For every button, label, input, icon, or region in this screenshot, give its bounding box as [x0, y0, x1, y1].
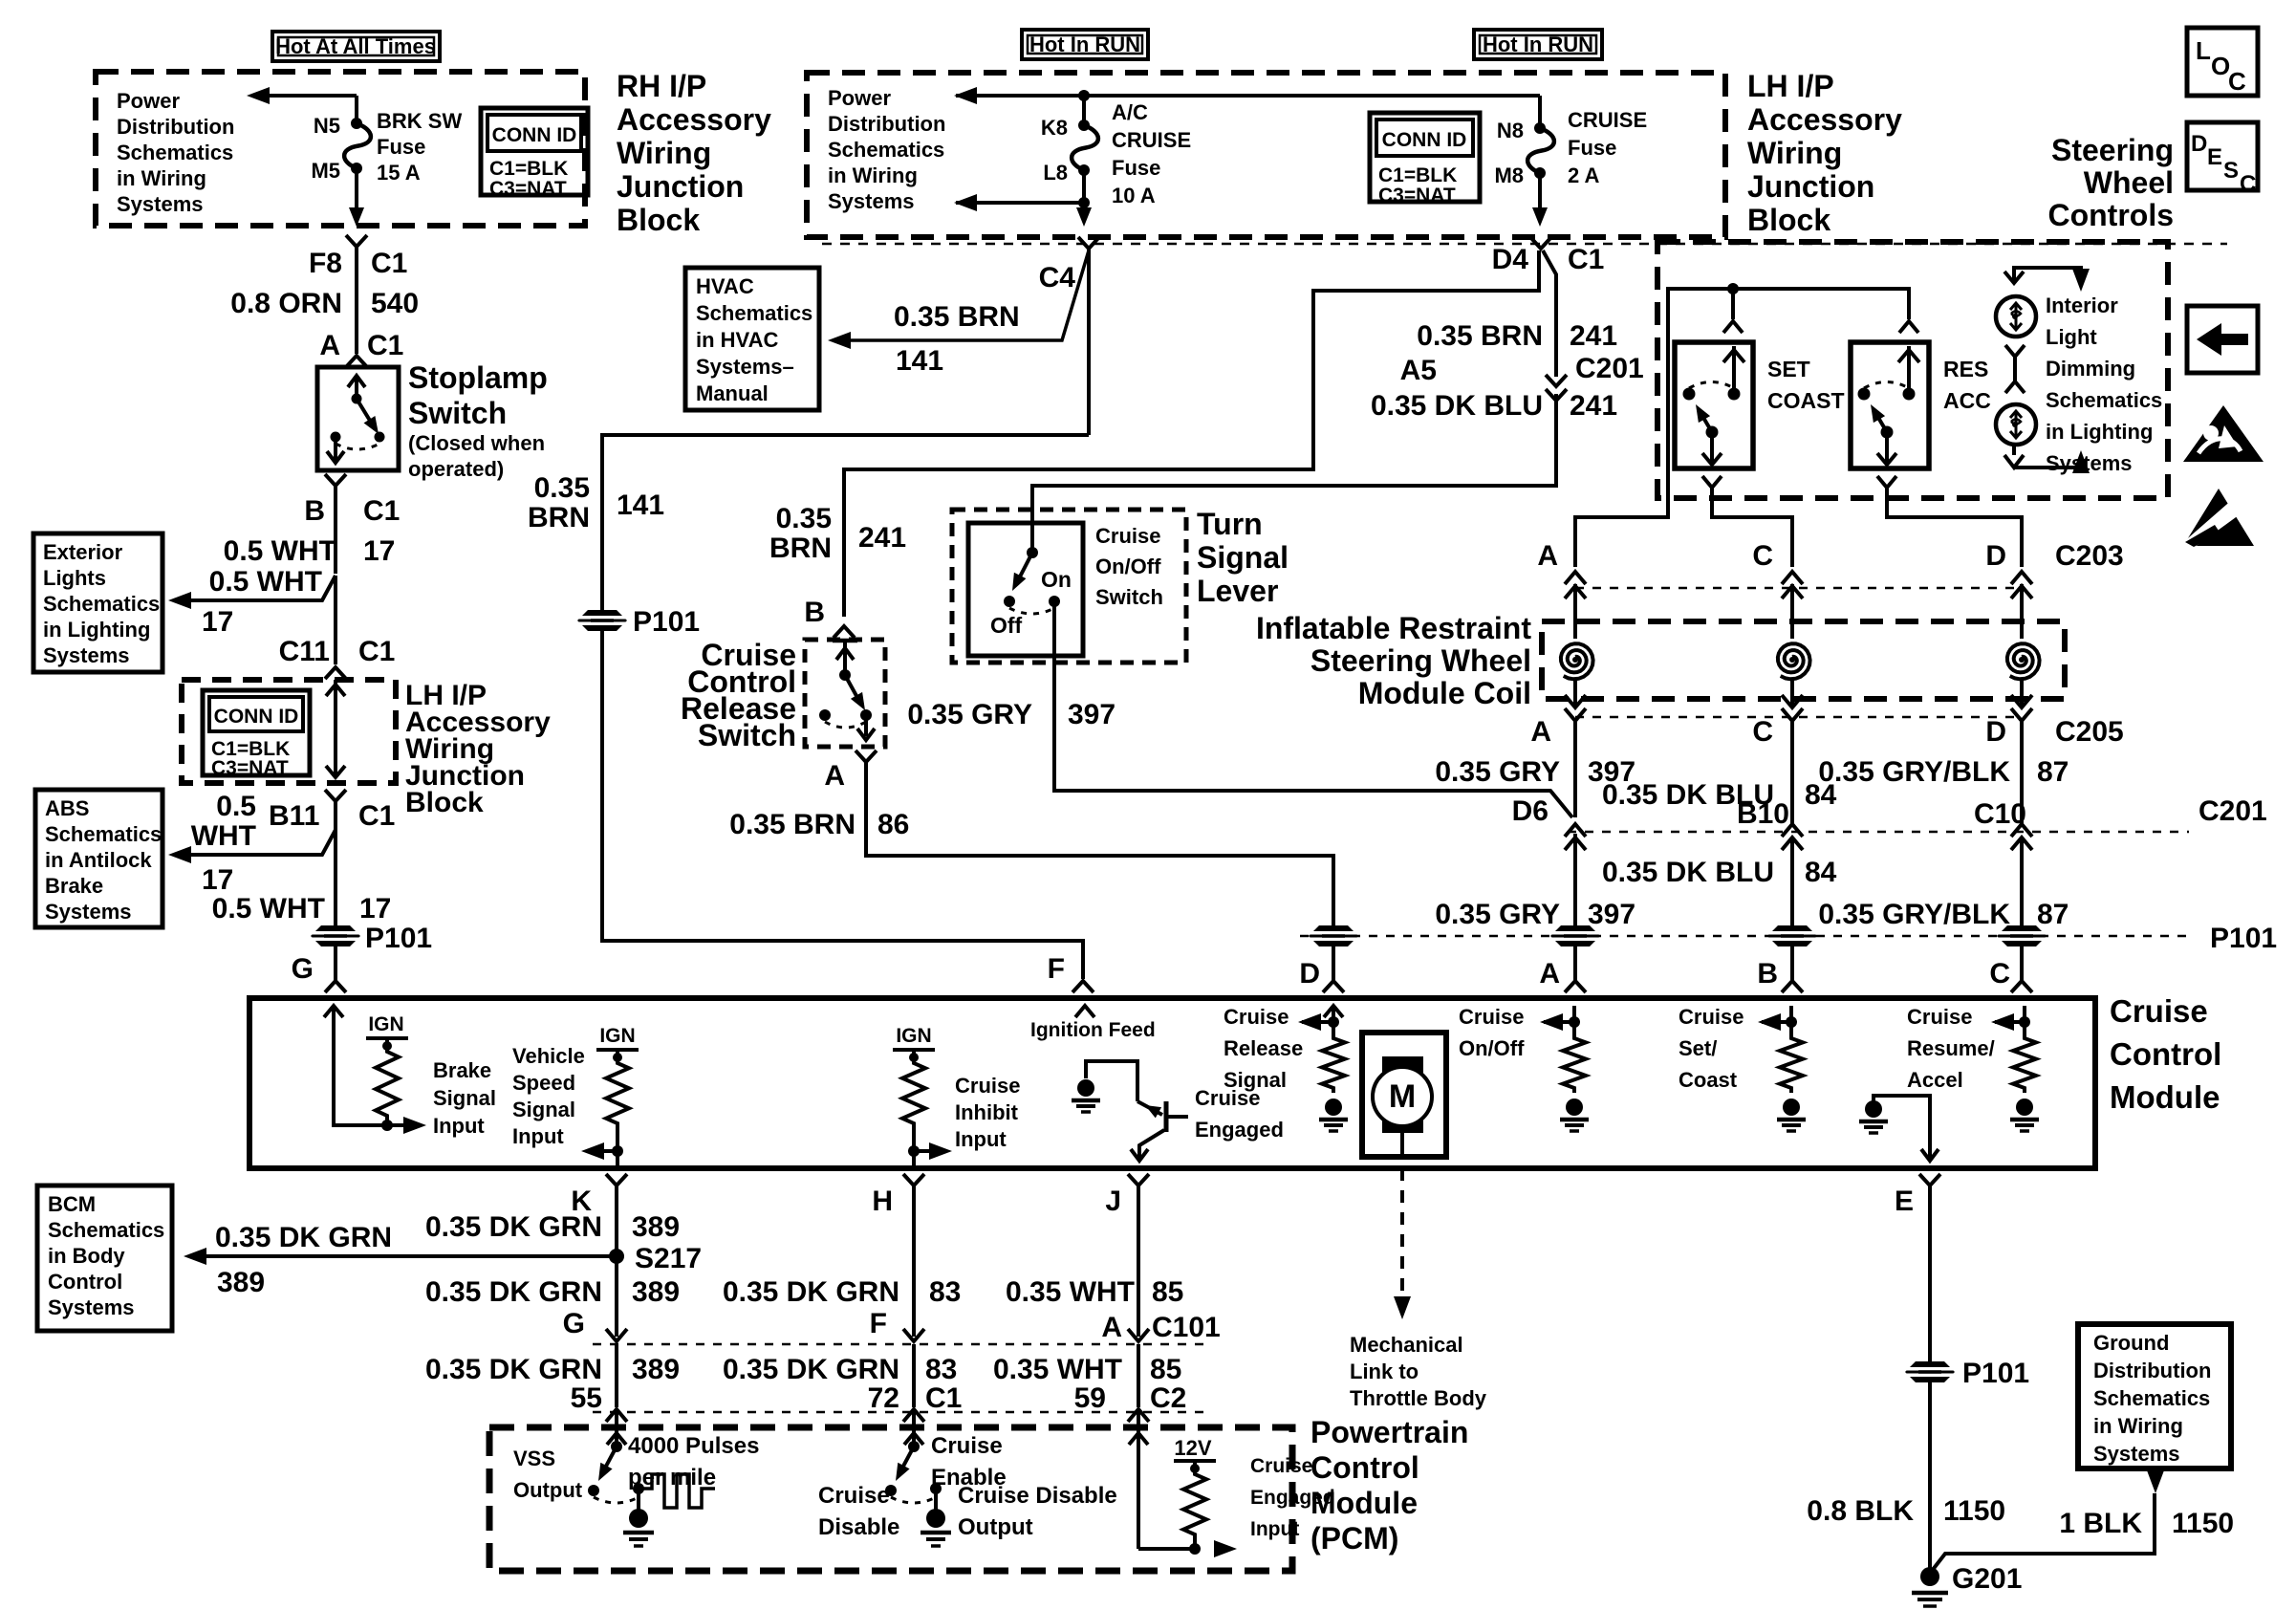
module E bracket and ground — [1874, 1096, 1930, 1159]
svg-text:Signal: Signal — [1197, 540, 1289, 575]
LH I/P junction dashed box — [182, 680, 396, 783]
feed line with arrow (top, to N8 and K8) — [956, 94, 1540, 98]
svg-text:540: 540 — [371, 288, 419, 319]
svg-text:Schematics: Schematics — [43, 592, 160, 616]
wire to ABS branch — [174, 830, 336, 855]
svg-text:12V: 12V — [1174, 1436, 1211, 1460]
svg-text:Lever: Lever — [1197, 574, 1278, 608]
arrow below ground box — [2147, 1470, 2164, 1493]
wire 1 BLK 1150 to G201 — [1932, 1493, 2155, 1571]
svg-text:Manual: Manual — [696, 381, 769, 405]
connector P101 row dashed line — [1300, 935, 2189, 938]
connector F8/C1 fork — [346, 235, 367, 247]
svg-text:Junction: Junction — [1747, 169, 1874, 204]
svg-text:B: B — [304, 495, 325, 527]
svg-text:C2: C2 — [1150, 1382, 1186, 1414]
svg-text:Cruise Disable: Cruise Disable — [958, 1483, 1117, 1509]
svg-text:B: B — [804, 597, 825, 628]
svg-text:10 A: 10 A — [1112, 184, 1156, 207]
svg-text:1150: 1150 — [2172, 1508, 2234, 1539]
svg-text:17: 17 — [202, 606, 233, 638]
svg-text:S: S — [2223, 158, 2239, 184]
svg-text:D: D — [1299, 958, 1320, 990]
svg-text:Light: Light — [2046, 325, 2097, 349]
fork below stoplamp switch — [325, 474, 346, 486]
fork at module F — [1072, 981, 1094, 992]
svg-text:D4: D4 — [1492, 244, 1529, 275]
svg-text:in Wiring: in Wiring — [828, 163, 918, 187]
svg-text:in HVAC: in HVAC — [696, 328, 778, 352]
warning triangle (ESD) — [2183, 489, 2254, 546]
svg-text:Control: Control — [48, 1270, 122, 1294]
svg-text:87: 87 — [2037, 756, 2069, 788]
svg-text:in Lighting: in Lighting — [2046, 420, 2153, 444]
svg-text:Schematics: Schematics — [828, 138, 944, 162]
svg-text:(PCM): (PCM) — [1310, 1521, 1398, 1556]
svg-text:Vehicle: Vehicle — [512, 1044, 585, 1068]
svg-text:0.5 WHT: 0.5 WHT — [212, 893, 325, 925]
svg-text:CRUISE: CRUISE — [1112, 128, 1191, 152]
svg-text:Accessory: Accessory — [1747, 102, 1902, 137]
DESC icon box — [2187, 122, 2258, 190]
svg-text:LH I/P: LH I/P — [1747, 69, 1834, 103]
svg-text:E: E — [2207, 144, 2222, 170]
svg-text:Schematics: Schematics — [45, 822, 162, 846]
svg-text:C: C — [1989, 958, 2010, 990]
cruise enable switch — [912, 1412, 916, 1447]
interior lamp 1 — [1996, 296, 2036, 337]
connector P101 (141 wire) — [577, 610, 627, 631]
svg-text:17: 17 — [359, 893, 391, 925]
mechanical link dashed wire — [1400, 1168, 1404, 1306]
IGN T-bar (inhibit) — [893, 1048, 935, 1052]
IGN T-bar (brake) — [366, 1036, 408, 1040]
ground (resume) — [2016, 1099, 2033, 1116]
ground (cruise disable output) — [934, 1489, 938, 1511]
svg-text:Brake: Brake — [45, 874, 103, 898]
svg-text:Throttle Body: Throttle Body — [1350, 1386, 1487, 1410]
svg-text:in Wiring: in Wiring — [2093, 1414, 2183, 1438]
svg-text:Control: Control — [1310, 1450, 1419, 1485]
svg-text:0.35 DK GRN: 0.35 DK GRN — [425, 1354, 602, 1385]
ground G201 — [1920, 1567, 1939, 1586]
svg-text:2 A: 2 A — [1568, 163, 1600, 187]
svg-text:Fuse: Fuse — [1112, 156, 1160, 180]
svg-text:Powertrain: Powertrain — [1310, 1415, 1468, 1449]
svg-text:C: C — [2240, 171, 2256, 197]
wire P101 to module G — [334, 946, 337, 980]
svg-text:0.35 DK GRN: 0.35 DK GRN — [723, 1276, 899, 1308]
svg-text:141: 141 — [896, 345, 943, 377]
module wire G to brake signal — [334, 1006, 415, 1125]
svg-text:M5: M5 — [311, 159, 340, 183]
svg-text:Exterior: Exterior — [43, 540, 123, 564]
svg-text:C1: C1 — [363, 495, 400, 527]
svg-text:85: 85 — [1150, 1354, 1181, 1385]
svg-text:M: M — [1389, 1078, 1416, 1115]
svg-text:1 BLK: 1 BLK — [2059, 1508, 2142, 1539]
svg-text:85: 85 — [1152, 1276, 1183, 1308]
wires C201 down to P101 row — [1573, 834, 1577, 925]
svg-text:Switch: Switch — [698, 718, 796, 752]
svg-text:Systems: Systems — [117, 192, 204, 216]
svg-text:Cruise: Cruise — [2110, 993, 2208, 1029]
svg-text:Stoplamp: Stoplamp — [408, 360, 548, 395]
svg-text:Brake: Brake — [433, 1058, 491, 1082]
svg-text:IGN: IGN — [896, 1025, 931, 1047]
svg-text:C4: C4 — [1039, 262, 1076, 294]
fork below RES switch — [1877, 476, 1896, 488]
svg-text:A: A — [1539, 958, 1560, 990]
svg-text:Set/: Set/ — [1679, 1036, 1717, 1060]
svg-text:Switch: Switch — [1095, 585, 1163, 609]
svg-text:WHT: WHT — [191, 820, 256, 852]
PCM connector row chevrons — [606, 1409, 627, 1422]
module D release signal branch — [1332, 1006, 1335, 1033]
svg-text:Inflatable Restraint: Inflatable Restraint — [1256, 611, 1531, 645]
svg-text:Dimming: Dimming — [2046, 357, 2135, 381]
svg-text:G: G — [292, 953, 314, 985]
ABS reference box — [35, 790, 162, 927]
svg-text:0.35 DK GRN: 0.35 DK GRN — [425, 1276, 602, 1308]
wire A5 to on/off switch route — [1032, 394, 1556, 523]
svg-text:B: B — [1757, 958, 1778, 990]
svg-text:C11: C11 — [279, 636, 330, 667]
svg-text:Distribution: Distribution — [828, 112, 945, 136]
svg-text:Output: Output — [513, 1478, 583, 1502]
wire RES to C203 D — [1887, 488, 2022, 567]
warning triangle (rollover) — [2183, 405, 2264, 462]
svg-text:S217: S217 — [635, 1243, 702, 1274]
svg-text:Link to: Link to — [1350, 1360, 1419, 1383]
left arrow icon box — [2187, 306, 2258, 373]
svg-text:Block: Block — [405, 787, 484, 818]
fork at release switch B — [834, 626, 855, 638]
cruise engaged input wire — [1137, 1412, 1140, 1549]
svg-text:BRN: BRN — [769, 533, 832, 564]
resistor cruise engaged input — [1183, 1469, 1206, 1539]
wire L8 down with second arrow — [1082, 170, 1086, 222]
svg-text:P101: P101 — [633, 606, 700, 638]
svg-text:Ground: Ground — [2093, 1331, 2169, 1355]
svg-text:241: 241 — [1570, 390, 1617, 422]
ground distribution reference box — [2078, 1324, 2231, 1469]
svg-text:0.35 GRY/BLK: 0.35 GRY/BLK — [1818, 756, 2010, 788]
svg-text:Hot At All Times: Hot At All Times — [275, 34, 436, 58]
svg-text:A: A — [1530, 716, 1551, 748]
svg-text:0.5 WHT: 0.5 WHT — [209, 566, 322, 598]
svg-text:Block: Block — [1747, 203, 1830, 237]
fuse CRUISE 2A (N8/M8) — [1534, 122, 1546, 134]
interior light dimming bracket top — [2014, 268, 2081, 283]
module G input chevron — [324, 1006, 343, 1017]
svg-text:Output: Output — [958, 1514, 1033, 1540]
svg-text:C203: C203 — [2055, 540, 2124, 572]
svg-text:On/Off: On/Off — [1459, 1036, 1525, 1060]
svg-text:C1: C1 — [925, 1382, 962, 1414]
svg-text:H: H — [872, 1186, 893, 1217]
wire to exterior lights branch — [174, 576, 336, 600]
svg-text:C3=NAT: C3=NAT — [211, 757, 289, 779]
svg-text:C: C — [1752, 716, 1773, 748]
ground (VSS) — [637, 1489, 640, 1511]
svg-text:SET: SET — [1767, 357, 1810, 381]
svg-text:in Antilock: in Antilock — [45, 848, 152, 872]
resistor vehicle speed input — [606, 1058, 629, 1128]
ground (cruise release) — [1325, 1099, 1342, 1116]
svg-text:83: 83 — [929, 1276, 961, 1308]
svg-text:in Wiring: in Wiring — [117, 166, 206, 190]
svg-text:IGN: IGN — [599, 1025, 635, 1047]
cruise on/off switch box — [968, 523, 1083, 656]
svg-text:0.35 DK GRN: 0.35 DK GRN — [215, 1222, 392, 1253]
svg-text:F: F — [870, 1308, 887, 1339]
svg-text:55: 55 — [571, 1382, 602, 1414]
svg-text:C1=BLK: C1=BLK — [1378, 164, 1457, 186]
steering wheel controls dashed box — [1657, 242, 2168, 498]
wire bus to SET switch — [1731, 289, 1735, 319]
svg-text:Systems–: Systems– — [696, 355, 794, 379]
svg-text:Block: Block — [617, 203, 700, 237]
resistor brake signal input — [376, 1047, 399, 1120]
svg-text:N8: N8 — [1497, 119, 1524, 142]
svg-text:Ignition Feed: Ignition Feed — [1030, 1019, 1156, 1041]
svg-text:C3=NAT: C3=NAT — [489, 178, 567, 200]
fork below module K — [606, 1174, 627, 1186]
svg-text:Cruise: Cruise — [1095, 524, 1160, 548]
svg-text:Engaged: Engaged — [1250, 1487, 1335, 1509]
wires C203 to coil box — [1573, 584, 1577, 639]
release switch internals — [833, 639, 857, 643]
wires C101 to PCM row — [615, 1344, 618, 1407]
svg-text:A: A — [1101, 1312, 1122, 1343]
svg-text:Distribution: Distribution — [117, 115, 234, 139]
svg-text:Wiring: Wiring — [1747, 136, 1842, 170]
svg-text:0.5 WHT: 0.5 WHT — [224, 535, 336, 567]
svg-text:Turn: Turn — [1197, 507, 1263, 541]
svg-text:397: 397 — [1588, 899, 1635, 930]
svg-text:operated): operated) — [408, 457, 504, 481]
svg-text:0.35 DK GRN: 0.35 DK GRN — [425, 1211, 602, 1243]
dashed box power distribution (middle) — [807, 73, 1725, 237]
resistor cruise release — [1322, 1033, 1345, 1093]
svg-text:Schematics: Schematics — [696, 301, 812, 325]
module B set/coast branch — [1789, 1006, 1793, 1033]
connector row C201 — [1565, 824, 1586, 837]
svg-text:0.35 BRN: 0.35 BRN — [729, 809, 856, 840]
PCM dashed box — [489, 1427, 1292, 1571]
transistor cruise engaged — [1137, 1101, 1162, 1115]
wires coils to C205 — [1573, 679, 1577, 705]
inflatable restraint coil dashed box — [1542, 621, 2065, 699]
fork below module J — [1128, 1174, 1149, 1186]
svg-text:C205: C205 — [2055, 716, 2124, 748]
svg-text:A: A — [319, 330, 340, 361]
svg-text:(Closed when: (Closed when — [408, 431, 545, 455]
fork below module E — [1919, 1174, 1940, 1186]
svg-text:A5: A5 — [1400, 355, 1437, 386]
wire M5 to junction block exit — [355, 168, 358, 222]
svg-text:M8: M8 — [1494, 163, 1524, 187]
svg-text:4000 Pulses: 4000 Pulses — [628, 1433, 759, 1459]
wire BRN141 route to F — [602, 435, 1089, 979]
cruise control module box — [249, 998, 2095, 1168]
ignition feed bracket — [1086, 1061, 1137, 1101]
svg-text:Control: Control — [2110, 1036, 2221, 1072]
square wave symbol — [642, 1474, 715, 1508]
svg-text:241: 241 — [858, 522, 906, 554]
resistor cruise inhibit input — [902, 1058, 925, 1128]
svg-text:C: C — [2228, 67, 2246, 96]
svg-text:C1=BLK: C1=BLK — [489, 158, 568, 180]
fork at module C — [2011, 981, 2032, 992]
svg-text:Off: Off — [990, 613, 1023, 638]
svg-text:G: G — [563, 1308, 585, 1339]
svg-text:Signal: Signal — [512, 1098, 575, 1121]
label box "Hot In RUN" 2 — [1474, 30, 1602, 59]
fork at module G — [325, 981, 346, 992]
svg-text:On/Off: On/Off — [1095, 555, 1161, 578]
svg-text:Controls: Controls — [2047, 198, 2174, 232]
fuse A/C CRUISE 10A (K8/L8) — [1078, 120, 1090, 131]
svg-text:B11: B11 — [269, 800, 319, 832]
motor M — [1382, 1056, 1423, 1133]
wire stoplamp to C11 — [334, 576, 337, 664]
svg-text:P101: P101 — [365, 923, 432, 954]
svg-text:Cruise: Cruise — [1459, 1005, 1524, 1029]
fork at stoplamp switch input — [346, 356, 367, 367]
IGN T-bar (vss) — [596, 1048, 639, 1052]
module wire K with arrow — [616, 1128, 619, 1167]
connector row C205 — [1565, 695, 1586, 707]
svg-text:86: 86 — [877, 809, 909, 840]
svg-text:ABS: ABS — [45, 796, 89, 820]
svg-text:0.8 ORN: 0.8 ORN — [230, 288, 342, 319]
svg-text:Module Coil: Module Coil — [1358, 676, 1531, 710]
module D input chevron — [1324, 1006, 1343, 1017]
fork below LH junction — [325, 790, 346, 801]
svg-text:17: 17 — [363, 535, 395, 567]
svg-text:Coast: Coast — [1679, 1068, 1738, 1092]
label box "Hot In RUN" 1 — [1022, 30, 1148, 59]
svg-text:241: 241 — [1570, 320, 1617, 352]
svg-text:0.35 WHT: 0.35 WHT — [993, 1354, 1122, 1385]
wire D4 diagonal to A5 — [1543, 250, 1556, 377]
svg-text:Resume/: Resume/ — [1907, 1036, 1995, 1060]
svg-text:Power: Power — [117, 89, 180, 113]
svg-text:C1: C1 — [367, 330, 403, 361]
wire C4 down to BRN141 route — [1087, 249, 1091, 435]
connector pair (dimming) — [2005, 345, 2025, 357]
wire to P101 (left) — [334, 830, 337, 925]
fork at module A — [1565, 981, 1586, 992]
connector P101 (B wire) — [1767, 925, 1817, 946]
svg-text:Junction: Junction — [617, 169, 744, 204]
svg-text:VSS: VSS — [513, 1447, 555, 1470]
svg-text:Cruise: Cruise — [1679, 1005, 1744, 1029]
arrow to power distribution (top left) — [268, 94, 357, 98]
svg-text:P101: P101 — [2210, 923, 2277, 954]
svg-text:Cruise: Cruise — [1907, 1005, 1972, 1029]
wire on contact to C201 route (GRY 397) — [1054, 601, 1572, 817]
svg-text:0.35 BRN: 0.35 BRN — [894, 301, 1020, 333]
svg-text:Distribution: Distribution — [2093, 1359, 2211, 1382]
svg-text:D: D — [2191, 131, 2207, 157]
wire N8 stub — [1538, 96, 1542, 128]
svg-text:ACC: ACC — [1943, 388, 1991, 413]
svg-text:D6: D6 — [1512, 795, 1549, 827]
svg-text:389: 389 — [632, 1354, 680, 1385]
svg-text:87: 87 — [2037, 899, 2069, 930]
svg-text:Cruise: Cruise — [1250, 1455, 1312, 1477]
svg-text:Input: Input — [1250, 1518, 1299, 1540]
svg-text:L: L — [2196, 36, 2211, 65]
coil C — [1778, 643, 1810, 679]
svg-text:Engaged: Engaged — [1195, 1118, 1284, 1142]
connector row C203 — [1565, 572, 1586, 584]
svg-text:Systems: Systems — [43, 643, 130, 667]
fork below release switch (A) — [856, 751, 877, 762]
svg-text:141: 141 — [617, 490, 664, 521]
svg-text:Speed: Speed — [512, 1071, 575, 1095]
svg-text:Signal: Signal — [433, 1086, 496, 1110]
interior light bottom fork and bracket — [2012, 445, 2016, 455]
LOC icon box — [2187, 28, 2258, 96]
svg-text:0.35: 0.35 — [776, 503, 832, 534]
svg-text:BCM: BCM — [48, 1192, 96, 1216]
svg-text:0.35 DK BLU: 0.35 DK BLU — [1371, 390, 1543, 422]
fork at module D — [1332, 946, 1335, 980]
svg-text:G201: G201 — [1952, 1563, 2022, 1595]
svg-text:389: 389 — [217, 1267, 265, 1298]
svg-text:Hot In RUN: Hot In RUN — [1483, 33, 1593, 56]
svg-text:Switch: Switch — [408, 396, 507, 430]
label box "Hot At All Times" — [272, 32, 440, 61]
connector P101 (C wire) — [1997, 925, 2047, 946]
connector P101 (D wire) — [1309, 925, 1358, 946]
svg-text:Steering Wheel: Steering Wheel — [1310, 643, 1531, 678]
resistor cruise resume — [2013, 1033, 2036, 1093]
stoplamp switch box — [317, 367, 399, 470]
svg-text:Fuse: Fuse — [377, 135, 425, 159]
svg-text:0.8 BLK: 0.8 BLK — [1807, 1495, 1914, 1527]
svg-text:0.35 GRY: 0.35 GRY — [907, 699, 1032, 730]
svg-text:C101: C101 — [1152, 1312, 1221, 1343]
svg-text:Release: Release — [1224, 1036, 1303, 1060]
svg-text:Schematics: Schematics — [2046, 388, 2162, 412]
svg-text:389: 389 — [632, 1211, 680, 1243]
arrow chevrons inside LH junction — [326, 685, 345, 696]
svg-text:0.35 WHT: 0.35 WHT — [1006, 1276, 1135, 1308]
connector chevrons A5/C201 — [1546, 375, 1567, 386]
svg-text:Power: Power — [828, 86, 891, 110]
module A on/off branch — [1572, 1006, 1576, 1033]
connector P101 (E wire) — [1905, 1361, 1955, 1382]
svg-text:Schematics: Schematics — [48, 1218, 164, 1242]
splice S217 with arrow to BCM — [609, 1249, 624, 1264]
svg-text:Accel: Accel — [1907, 1068, 1963, 1092]
on/off switch internals — [1030, 486, 1034, 553]
wire D4 to release switch B (241 route) — [844, 250, 1539, 617]
fork at RES switch input — [1899, 321, 1918, 333]
ground (set/coast) — [1783, 1099, 1800, 1116]
svg-text:Cruise: Cruise — [1224, 1005, 1289, 1029]
connector row C101 — [606, 1329, 627, 1341]
svg-text:Lights: Lights — [43, 566, 106, 590]
svg-text:Systems: Systems — [2093, 1442, 2180, 1466]
fork at LH junction block entry — [325, 667, 346, 679]
release switch dashed box — [805, 640, 885, 747]
